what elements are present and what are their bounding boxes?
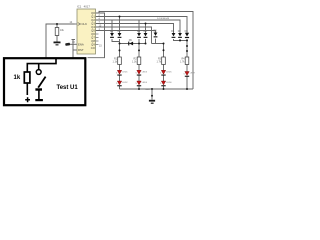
svg-text:CLK: CLK xyxy=(82,22,88,26)
svg-text:LED7: LED7 xyxy=(190,73,196,75)
svg-text:LED4: LED4 xyxy=(142,82,148,84)
svg-text:1.7k: 1.7k xyxy=(156,61,161,64)
svg-text:1.1k: 1.1k xyxy=(132,61,137,64)
svg-text:1.1k: 1.1k xyxy=(112,61,117,64)
svg-text:ENA: ENA xyxy=(78,42,84,46)
svg-text:LED1: LED1 xyxy=(122,72,128,74)
svg-text:RST: RST xyxy=(78,48,84,52)
svg-text:LED3: LED3 xyxy=(142,72,148,74)
svg-text:D.DS/04048: D.DS/04048 xyxy=(157,18,170,20)
svg-text:Test U1: Test U1 xyxy=(57,85,79,91)
svg-text:LED6: LED6 xyxy=(166,82,172,84)
svg-text:LED5: LED5 xyxy=(166,72,172,74)
svg-text:1k: 1k xyxy=(14,75,21,81)
svg-text:LED2: LED2 xyxy=(122,82,128,84)
svg-text:1.7k: 1.7k xyxy=(180,61,185,64)
svg-text:IC1 4017: IC1 4017 xyxy=(77,5,90,9)
svg-text:GND: GND xyxy=(145,89,150,91)
